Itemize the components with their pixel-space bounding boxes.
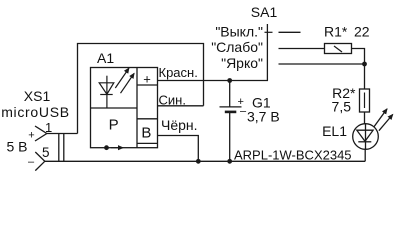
svg-text:B: B [141, 124, 151, 141]
svg-text:5 В: 5 В [6, 139, 27, 155]
svg-text:Красн.: Красн. [159, 65, 198, 80]
node junction black wire to rail [196, 159, 201, 164]
svg-text:"Слабо": "Слабо" [211, 39, 263, 55]
wire red lead of A1 to switch SA1 common [158, 24, 268, 81]
wire blue lead of A1 [158, 105, 204, 107]
wire +5V run from XS1 over module A1 down to blue lead [78, 44, 204, 134]
wire SA1 position 3 to node A [279, 63, 365, 65]
svg-text:SA1: SA1 [251, 4, 278, 20]
wire black lead of A1 down to rail [158, 136, 199, 162]
indicator LED inside A1 [99, 68, 134, 107]
svg-text:5: 5 [42, 145, 50, 160]
svg-text:Чёрн.: Чёрн. [161, 117, 198, 133]
svg-text:22: 22 [354, 24, 370, 40]
wire SA1 position 2 to R1 [279, 48, 325, 50]
svg-text:–: – [28, 156, 35, 168]
svg-text:P: P [109, 116, 119, 133]
svg-text:A1: A1 [97, 50, 114, 66]
svg-text:XS1: XS1 [24, 88, 51, 104]
battery G1 [220, 107, 242, 112]
svg-text:ARPL-1W-BCX2345: ARPL-1W-BCX2345 [234, 148, 352, 163]
svg-text:R1*: R1* [324, 24, 348, 40]
wire ground/minus bottom rail from XS1 pin 5 to EL1 cathode [45, 160, 365, 162]
svg-text:Син.: Син. [159, 93, 186, 108]
module A1 inner dividers [91, 68, 158, 148]
svg-text:EL1: EL1 [322, 123, 347, 139]
wire battery minus to rail [229, 113, 231, 162]
svg-text:7,5: 7,5 [332, 99, 352, 115]
resistor R1 [325, 44, 352, 54]
node junction red wire to battery [227, 78, 232, 83]
connector XS1 body double line [59, 134, 64, 162]
svg-text:microUSB: microUSB [1, 104, 70, 120]
svg-text:"Ярко": "Ярко" [221, 55, 263, 71]
wire SA1 open position stub [279, 31, 301, 33]
svg-text:–: – [240, 106, 247, 118]
LED EL1 [353, 109, 393, 149]
node junction battery minus to rail [227, 159, 232, 164]
svg-text:1: 1 [45, 120, 52, 135]
wire XS1 pin 1 to +5V riser [47, 133, 78, 135]
svg-text:+: + [143, 72, 151, 87]
connector XS1 pin 1 contact [35, 126, 47, 141]
wire EL1 cathode to rail [364, 149, 366, 161]
wire battery plus tap [229, 81, 231, 107]
svg-text:"Выкл.": "Выкл." [215, 24, 263, 40]
switch SA1 moving contact tick [265, 31, 273, 33]
node A junction R1 and position 3 [362, 62, 367, 67]
svg-text:+: + [28, 130, 34, 142]
junction dot with arrow on A1 bottom edge [104, 145, 123, 150]
module A1 outline [91, 68, 158, 148]
connector XS1 pin 5 contact [35, 152, 45, 171]
svg-text:3,7 В: 3,7 В [247, 109, 280, 125]
wire R1 to node A [352, 49, 365, 90]
wire R2 to EL1 anode [364, 112, 366, 124]
resistor R2 [360, 89, 370, 112]
